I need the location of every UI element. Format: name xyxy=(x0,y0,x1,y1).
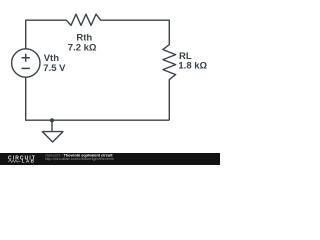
svg-text:7.5 V: 7.5 V xyxy=(43,63,66,74)
svg-text:7.2 kΩ: 7.2 kΩ xyxy=(68,42,97,53)
svg-text:http://circuitlab.com/c/6dsm4g: http://circuitlab.com/c/6dsm4gm/thevenin xyxy=(45,157,114,161)
svg-text:LAB: LAB xyxy=(22,159,35,164)
svg-text:1.8 kΩ: 1.8 kΩ xyxy=(178,61,207,72)
